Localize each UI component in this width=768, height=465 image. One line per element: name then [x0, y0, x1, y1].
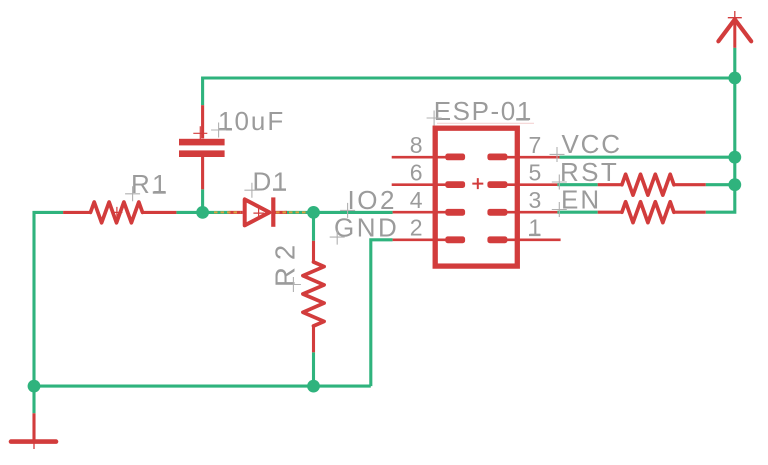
wire top horizontal with cap drop — [203, 78, 735, 105]
junction bottom left — [28, 380, 41, 393]
wire right vertical — [706, 48, 735, 212]
pin 2 stub — [393, 239, 450, 242]
pad pin 1 — [487, 236, 507, 243]
pad pin 7 — [487, 154, 507, 161]
origin cross D1 text — [244, 183, 259, 198]
origin cross RST — [552, 175, 567, 190]
origin cross ESP-01 text — [427, 111, 442, 126]
label D1 — [253, 166, 289, 196]
svg-text:7: 7 — [529, 132, 542, 158]
svg-text:D1: D1 — [253, 166, 289, 196]
net label VCC — [562, 129, 622, 159]
resistor R1 — [63, 202, 176, 223]
wire R1 right to node A — [176, 211, 202, 214]
net marker right of D1 — [276, 211, 307, 213]
junction RST — [728, 178, 741, 191]
svg-text:4: 4 — [410, 187, 423, 213]
pin 8 stub — [392, 156, 450, 159]
pin number 8 — [410, 132, 423, 158]
pin number 4 — [410, 187, 423, 213]
diode D1 — [229, 197, 288, 226]
origin cross 10uF text — [211, 123, 226, 138]
label R2 (rotated) — [270, 238, 301, 287]
svg-text:VCC: VCC — [562, 129, 622, 159]
wire RST pin5 to resistor — [557, 183, 597, 186]
wire cap bottom to node A — [201, 189, 204, 212]
svg-text:1: 1 — [529, 215, 542, 241]
net marker left of D1 — [214, 211, 241, 213]
junction top right — [728, 72, 741, 85]
origin cross IO2 — [340, 203, 355, 218]
resistor EN series — [598, 202, 706, 223]
svg-text:2: 2 — [410, 215, 423, 241]
wire GND pin2 — [371, 240, 393, 386]
pad pin 3 — [487, 209, 507, 216]
junction node A — [196, 206, 209, 219]
svg-text:ESP-01: ESP-01 — [434, 96, 533, 126]
wire diode cathode to node B — [285, 211, 314, 214]
label 10uF — [218, 106, 285, 136]
wire node B to pin 4 IO2 — [314, 211, 393, 214]
svg-text:3: 3 — [529, 187, 542, 213]
pin number 3 — [529, 187, 542, 213]
svg-text:EN: EN — [561, 185, 601, 215]
pin 5 stub — [506, 183, 557, 186]
pin 3 stub — [506, 211, 557, 214]
wire EN pin3 to resistor — [557, 211, 597, 214]
pad pin 8 — [445, 154, 465, 161]
wire RST resistor to right vertical — [706, 183, 735, 186]
junction R2 bottom — [307, 380, 320, 393]
origin cross R1 text — [125, 186, 140, 201]
pin 1 stub — [506, 239, 561, 242]
net label EN — [561, 185, 601, 215]
pin number 6 — [410, 160, 423, 186]
pad pin 4 — [445, 209, 465, 216]
svg-text:R2: R2 — [270, 238, 301, 287]
wire left vertical — [34, 212, 63, 386]
pin number 7 — [529, 132, 542, 158]
net label IO2 — [348, 185, 397, 215]
name underline ESP-01 — [437, 122, 534, 124]
wire R2 top — [312, 212, 315, 240]
wire bottom horizontal — [34, 385, 371, 388]
net label RST — [560, 157, 619, 187]
junction VCC — [728, 151, 741, 164]
resistor R2 — [303, 241, 324, 352]
VCC supply symbol — [718, 11, 751, 48]
wire R2 bottom — [312, 352, 315, 386]
svg-text:R1: R1 — [131, 169, 169, 199]
resistor RST series — [598, 174, 706, 195]
pin number 2 — [410, 215, 423, 241]
label ESP-01 — [434, 96, 533, 126]
label R1 — [131, 169, 169, 199]
svg-text:GND: GND — [334, 212, 399, 242]
svg-text:5: 5 — [529, 160, 542, 186]
pad pin 2 — [445, 236, 465, 243]
net label GND — [334, 212, 399, 242]
wire ground stub — [32, 386, 35, 413]
svg-text:8: 8 — [410, 132, 423, 158]
pad pin 5 — [487, 181, 507, 188]
pin number 5 — [529, 160, 542, 186]
pin number 1 — [529, 215, 542, 241]
origin cross EN — [552, 202, 567, 217]
capacitor C1 10uF — [179, 105, 225, 189]
wire VCC pin7 — [560, 156, 735, 159]
svg-text:RST: RST — [560, 157, 619, 187]
wire node A to diode anode — [203, 211, 229, 214]
junction node B — [307, 206, 320, 219]
ground symbol — [11, 413, 56, 449]
origin cross GND — [330, 230, 345, 245]
pad pin 6 — [445, 181, 465, 188]
origin cross VCC — [550, 147, 565, 162]
pin 4 stub — [393, 211, 450, 214]
origin cross R2 text — [286, 277, 301, 292]
pin 7 stub — [506, 156, 560, 159]
pin 6 stub — [392, 183, 450, 186]
connector U1 ESP-01 body — [435, 128, 517, 266]
svg-text:6: 6 — [410, 160, 423, 186]
svg-text:10uF: 10uF — [218, 106, 285, 136]
